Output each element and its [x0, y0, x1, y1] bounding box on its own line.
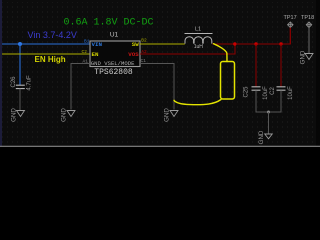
- annotation yellow highlight box: [221, 62, 235, 100]
- test point TP17: [284, 15, 297, 28]
- wire VOS net (red) from chip: [140, 44, 235, 54]
- svg-text:GND: GND: [258, 130, 265, 144]
- wire VIN branch down to C26: [19, 44, 21, 85]
- svg-text:0.6A 1.8V DC-DC: 0.6A 1.8V DC-DC: [64, 18, 154, 29]
- svg-text:B1: B1: [84, 39, 90, 45]
- wire VSEL/MODE pin A1 to ground: [71, 64, 90, 110]
- wire TP17 to VOUT: [289, 28, 291, 45]
- svg-text:4.7uF: 4.7uF: [27, 75, 33, 91]
- svg-text:TP18: TP18: [301, 15, 314, 21]
- svg-text:L1: L1: [195, 26, 201, 32]
- test point TP18: [301, 15, 314, 28]
- svg-text:VOS: VOS: [128, 51, 139, 58]
- wire EN net (yellow horizontal): [2, 53, 90, 55]
- wire TP18 to ground: [308, 28, 310, 54]
- svg-text:GND VSEL/MODE: GND VSEL/MODE: [91, 60, 135, 67]
- wire VOUT net (red horizontal): [212, 28, 290, 45]
- svg-text:U1: U1: [110, 31, 119, 38]
- svg-text:EN High: EN High: [35, 55, 66, 64]
- wire C26 to ground: [19, 89, 21, 110]
- ground symbol under C26: [10, 108, 24, 122]
- svg-text:EN: EN: [92, 51, 99, 58]
- svg-text:GND: GND: [10, 108, 17, 122]
- ground symbol under TP18: [300, 50, 314, 64]
- svg-text:C2: C2: [82, 49, 88, 55]
- svg-text:C26: C26: [11, 76, 17, 88]
- annotation yellow lead-in stroke: [214, 44, 228, 62]
- svg-text:TP17: TP17: [284, 15, 297, 21]
- wire GND pin C1 to ground: [140, 64, 174, 110]
- wire VIN net (blue horizontal): [2, 43, 90, 45]
- svg-text:B2: B2: [141, 38, 147, 44]
- node junction C25 branch: [254, 42, 257, 45]
- node junction on VIN net: [18, 42, 22, 46]
- inductor L1: [185, 26, 213, 50]
- wire join to ground: [268, 112, 270, 134]
- annotation yellow freehand curve to ground wire: [174, 100, 221, 105]
- op-amp U1 chip body TPS62808: [90, 31, 140, 77]
- wire SW net (yellow): [140, 43, 185, 45]
- svg-text:SW: SW: [132, 41, 139, 48]
- ground symbol under caps: [258, 130, 272, 144]
- ground symbol below chip right: [164, 108, 179, 122]
- capacitor C2: [270, 86, 294, 100]
- node junction caps gnd: [267, 111, 270, 114]
- svg-text:C25: C25: [244, 86, 250, 98]
- node junction C2 branch: [279, 42, 282, 45]
- svg-text:C2: C2: [270, 87, 276, 95]
- capacitor C26: [11, 75, 33, 91]
- wire VOUT to C25: [255, 44, 257, 87]
- svg-text:1uH: 1uH: [194, 44, 204, 50]
- ground symbol left of chip: [61, 108, 76, 122]
- svg-text:Vin 3.7-4.2V: Vin 3.7-4.2V: [28, 30, 77, 40]
- wire VOUT to C2: [280, 44, 282, 87]
- svg-text:VIN: VIN: [92, 41, 103, 48]
- svg-text:10uF: 10uF: [288, 86, 294, 100]
- node junction VOS joins VOUT: [233, 42, 236, 45]
- svg-text:GND: GND: [61, 108, 68, 122]
- svg-text:10uF: 10uF: [263, 86, 269, 100]
- svg-text:GND: GND: [300, 50, 307, 64]
- capacitor C25: [244, 86, 270, 100]
- svg-text:TPS62808: TPS62808: [94, 68, 133, 77]
- wire caps to ground join: [256, 90, 281, 112]
- svg-text:C1: C1: [141, 58, 147, 64]
- svg-text:GND: GND: [164, 108, 171, 122]
